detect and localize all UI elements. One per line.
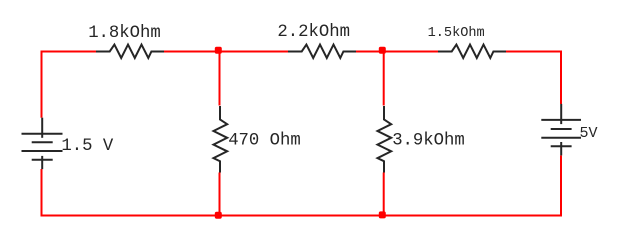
- node D junction dot: [379, 211, 386, 218]
- battery V1 plate short bottom: [32, 159, 53, 161]
- wire: top-left corner (left rail top + top rail to R1): [42, 52, 97, 118]
- wire: bottom rail node D to bottom-right corner up to battery V2: [384, 156, 561, 216]
- battery V2 plate short bottom: [551, 145, 572, 147]
- svg-text:1.5 V: 1.5 V: [61, 137, 113, 156]
- resistor R5 3.9kOhm vertical zigzag: [378, 106, 392, 173]
- wire: resistor R4 to bottom rail node C: [219, 173, 221, 216]
- battery V2 plate long lower: [541, 137, 581, 139]
- resistor R1 1.8kOhm zigzag: [96, 45, 164, 58]
- wire: bottom rail node C to node D: [219, 215, 384, 217]
- resistor R3 1.5kOhm zigzag: [438, 45, 506, 58]
- svg-text:3.9kOhm: 3.9kOhm: [392, 132, 465, 151]
- battery V1 bottom lead stub: [41, 156, 43, 169]
- wire: top rail R3 to top-right corner down to battery V2: [506, 52, 561, 105]
- wire: node B down to resistor R5: [383, 52, 385, 106]
- node B junction dot: [379, 47, 386, 54]
- battery V2 5V top lead stub: [560, 104, 562, 124]
- svg-text:470 Ohm: 470 Ohm: [228, 131, 301, 150]
- resistor R2 2.2kOhm zigzag: [288, 45, 356, 58]
- wire: battery V1 bottom to bottom-left corner to node C: [42, 169, 220, 216]
- wire: top rail R2 to R3 through node B: [356, 51, 438, 53]
- battery V1 plate long lower: [22, 150, 63, 152]
- battery V2 plate long top: [541, 119, 581, 121]
- battery V1 1.5 V top lead stub: [41, 118, 43, 138]
- svg-text:1.5kOhm: 1.5kOhm: [428, 26, 485, 41]
- node A junction dot: [215, 47, 222, 54]
- resistor R4 470 Ohm vertical zigzag: [214, 106, 228, 173]
- battery V2 plate short upper: [551, 128, 572, 130]
- svg-text:2.2kOhm: 2.2kOhm: [277, 23, 350, 42]
- node C junction dot: [215, 212, 222, 219]
- wire: resistor R5 to bottom rail node D: [383, 173, 385, 216]
- battery V1 plate long top: [22, 133, 63, 135]
- svg-text:5V: 5V: [580, 125, 598, 142]
- battery V2 bottom lead stub: [560, 142, 562, 155]
- wire: node A down to resistor R4: [219, 52, 221, 106]
- battery V1 plate short upper: [32, 141, 53, 143]
- svg-text:1.8kOhm: 1.8kOhm: [88, 24, 161, 43]
- wire: top rail R1 to R2 through node A: [164, 51, 288, 53]
